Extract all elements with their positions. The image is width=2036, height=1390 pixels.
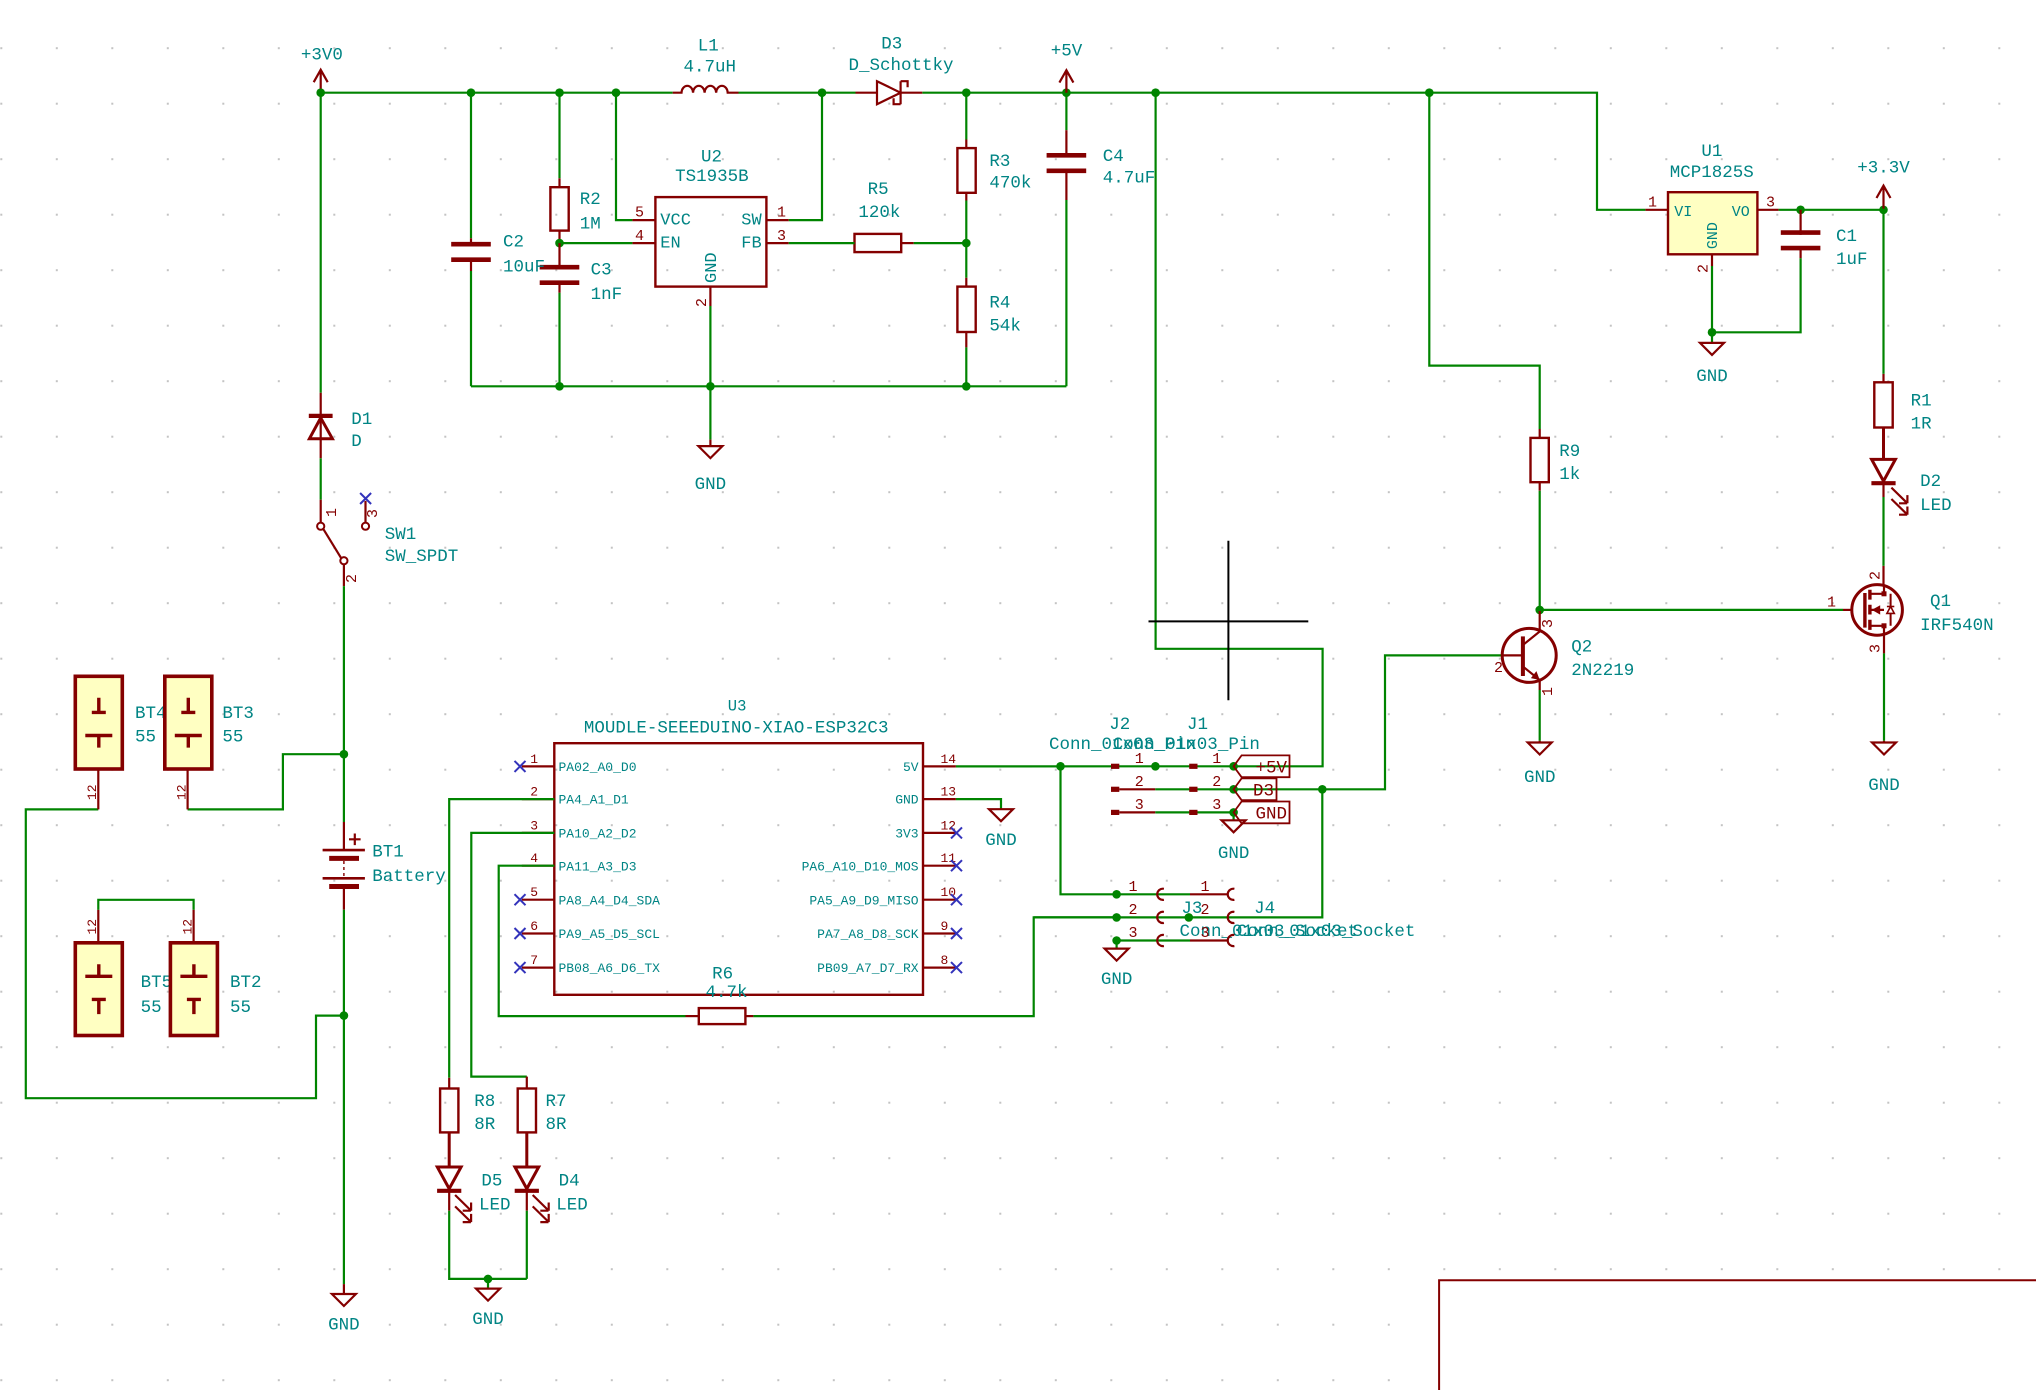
svg-text:12: 12 <box>180 919 195 935</box>
svg-text:5: 5 <box>635 205 644 222</box>
svg-text:R3: R3 <box>989 152 1010 172</box>
wire D1 to SW1 <box>320 458 322 499</box>
pin 4 EN of U2 <box>632 242 655 244</box>
svg-text:FB: FB <box>741 235 761 254</box>
junction top rail at R2 <box>555 88 564 97</box>
junction top rail at +5V / C4 <box>1062 88 1071 97</box>
wire U1 GND pin down <box>1711 266 1713 332</box>
wire D4 to LED gnd rail <box>526 1211 528 1279</box>
wire U3 GND pin to ground <box>956 799 1001 809</box>
junction C1 tap <box>1796 206 1805 215</box>
junction Q2 collector / Q1 gate <box>1535 606 1544 615</box>
wire down to R2 <box>558 93 560 179</box>
svg-text:C4: C4 <box>1103 147 1124 167</box>
svg-text:GND: GND <box>985 831 1017 851</box>
wire FB pin to R5 <box>789 242 855 244</box>
connector J3 Conn_01x03_Socket <box>1157 889 1164 900</box>
global label GND <box>1234 802 1290 824</box>
resistor R7 <box>518 1089 536 1133</box>
junction gnd rail at C3 <box>555 382 564 391</box>
svg-text:2: 2 <box>1135 774 1144 791</box>
junction FB node <box>962 239 971 248</box>
connector J2 Conn_01x03_Pin <box>1111 764 1119 769</box>
wire gnd stub J1 <box>1232 812 1234 820</box>
resistor R8 <box>440 1089 458 1133</box>
svg-text:J4: J4 <box>1254 899 1275 919</box>
pin 11 PA6_A10_D10_MOS of U3 <box>923 865 956 867</box>
svg-text:GND: GND <box>328 1316 360 1336</box>
svg-text:2: 2 <box>1200 902 1209 919</box>
svg-text:12: 12 <box>174 784 189 800</box>
svg-text:5V: 5V <box>903 760 919 775</box>
resistor R3 <box>957 148 975 193</box>
svg-text:PA11_A3_D3: PA11_A3_D3 <box>559 859 637 874</box>
pin of BT5 <box>97 910 99 943</box>
svg-text:PA9_A5_D5_SCL: PA9_A5_D5_SCL <box>559 927 660 942</box>
svg-text:4: 4 <box>530 851 538 866</box>
pin 3 VO of U1 <box>1757 209 1778 211</box>
svg-text:+3V0: +3V0 <box>301 45 343 65</box>
wire U3 pin2 to R8 <box>449 799 554 1078</box>
ground GND Q1 <box>1872 743 1896 755</box>
svg-text:BT3: BT3 <box>222 704 254 724</box>
wire +5V net from top rail to J1 pin1 <box>1156 93 1323 767</box>
wire 5V branch down to J3/J4 row1 <box>1061 766 1191 894</box>
wire J3 row2 (overlap) <box>1034 916 1117 918</box>
ground GND battery <box>332 1294 356 1306</box>
svg-text:1uF: 1uF <box>1836 250 1868 270</box>
svg-text:SW_SPDT: SW_SPDT <box>385 547 459 567</box>
svg-text:VO: VO <box>1732 204 1750 221</box>
svg-text:U3: U3 <box>728 698 747 716</box>
wire R5 to FB node <box>914 242 967 244</box>
capacitor C3 <box>540 267 580 283</box>
transistor Q1 IRF540N <box>1852 585 1903 636</box>
wire C1 to U1 gnd <box>1712 258 1801 332</box>
svg-text:R5: R5 <box>868 180 889 200</box>
svg-text:GND: GND <box>1101 970 1133 990</box>
resistor R2 <box>550 187 568 230</box>
svg-text:C1: C1 <box>1836 227 1857 247</box>
battery holder BT2 <box>170 943 217 1036</box>
diode D1 <box>320 393 322 459</box>
pin 12 3V3 of U3 <box>923 832 956 834</box>
svg-text:4.7uH: 4.7uH <box>684 57 737 77</box>
pin 8 PB09_A7_D7_RX of U3 <box>923 966 956 968</box>
svg-text:PA6_A10_D10_MOS: PA6_A10_D10_MOS <box>802 859 919 874</box>
svg-text:J1: J1 <box>1187 715 1208 735</box>
svg-text:VI: VI <box>1674 204 1692 221</box>
svg-text:55: 55 <box>230 998 251 1018</box>
svg-text:J2: J2 <box>1109 715 1130 735</box>
svg-text:55: 55 <box>141 998 162 1018</box>
svg-text:D3: D3 <box>881 34 902 54</box>
pin 9 PA7_A8_D8_SCK of U3 <box>923 932 956 934</box>
svg-text:GND: GND <box>472 1310 504 1330</box>
wire U2 GND pin to rail <box>709 306 711 386</box>
junction top rail at SW node <box>818 88 827 97</box>
pin 2 PA4_A1_D1 of U3 <box>522 798 555 800</box>
svg-text:6: 6 <box>530 919 538 934</box>
LED D5 <box>437 1132 461 1188</box>
svg-text:C3: C3 <box>591 261 612 281</box>
junction top rail at +5V feed to J1 <box>1151 88 1160 97</box>
svg-text:GND: GND <box>895 793 919 808</box>
wire J2 pin3 to J1 pin3 <box>1155 811 1233 813</box>
wire gnd stub U1 <box>1711 332 1713 343</box>
svg-text:IRF540N: IRF540N <box>1920 616 1994 636</box>
svg-text:12: 12 <box>85 784 100 800</box>
svg-text:PA10_A2_D2: PA10_A2_D2 <box>559 827 637 842</box>
pin 1 PA02_A0_D0 of U3 <box>522 765 555 767</box>
svg-text:2: 2 <box>1696 264 1713 273</box>
svg-text:PB08_A6_D6_TX: PB08_A6_D6_TX <box>559 961 661 976</box>
junction J3 pin2 <box>1112 913 1121 922</box>
battery holder BT5 <box>75 943 122 1036</box>
junction top rail at R3 <box>962 88 971 97</box>
svg-text:GND: GND <box>1705 222 1722 249</box>
junction top rail at +3V0 <box>316 88 325 97</box>
svg-text:R1: R1 <box>1911 392 1932 412</box>
lead C3 top <box>558 243 560 267</box>
inductor L1 <box>673 86 739 93</box>
svg-text:7: 7 <box>530 953 538 968</box>
pin 10 PA5_A9_D9_MISO of U3 <box>923 899 956 901</box>
svg-text:U2: U2 <box>701 148 722 168</box>
pin 3 PA10_A2_D2 of U3 <box>522 832 555 834</box>
svg-text:MCP1825S: MCP1825S <box>1670 163 1754 183</box>
wire +3V0 down to D1 <box>320 93 322 393</box>
power +3.3V symbol <box>1877 186 1891 209</box>
svg-text:GND: GND <box>1868 776 1900 796</box>
svg-text:Battery: Battery <box>372 867 446 887</box>
wire down to R3 <box>965 93 967 140</box>
junction J1 pin2 <box>1229 785 1238 794</box>
wire +3V0 rail left segment <box>321 92 673 94</box>
svg-text:1: 1 <box>1540 687 1557 696</box>
svg-text:9: 9 <box>941 919 949 934</box>
svg-text:GND: GND <box>695 475 727 495</box>
connector J1 Conn_01x03_Pin <box>1189 764 1197 769</box>
junction BT3 tap <box>340 750 349 759</box>
IC U2 TS1935B body <box>655 197 766 287</box>
wire BT1 to GND <box>343 910 345 1284</box>
svg-text:1: 1 <box>530 752 538 767</box>
svg-text:3: 3 <box>1212 797 1221 814</box>
junction U1 gnd node <box>1708 328 1717 337</box>
capacitor C4 <box>1047 155 1087 171</box>
wire SW node down to U2 SW pin <box>789 93 822 220</box>
svg-text:3: 3 <box>1200 925 1209 942</box>
svg-text:2: 2 <box>530 785 538 800</box>
pin 1 SW of U2 <box>766 219 788 221</box>
svg-text:Q2: Q2 <box>1571 637 1592 657</box>
svg-text:BT1: BT1 <box>372 842 404 862</box>
resistor R4 <box>957 287 975 332</box>
power +5V symbol <box>1059 70 1073 93</box>
svg-text:GND: GND <box>1218 844 1250 864</box>
ground GND below U2 <box>698 446 722 458</box>
battery holder BT3 <box>165 676 212 769</box>
svg-text:3: 3 <box>777 228 786 245</box>
svg-text:SW: SW <box>741 212 762 231</box>
svg-text:D3: D3 <box>1253 782 1274 802</box>
resistor R9 <box>1531 438 1549 482</box>
wire U2 circuit ground rail <box>471 385 1066 387</box>
svg-text:1: 1 <box>1648 194 1657 211</box>
wire Q1 source to GND <box>1883 653 1885 740</box>
svg-text:2: 2 <box>1212 774 1221 791</box>
svg-text:54k: 54k <box>989 317 1021 337</box>
IC U3 module body <box>554 743 923 995</box>
svg-text:PA4_A1_D1: PA4_A1_D1 <box>559 793 629 808</box>
svg-text:GND: GND <box>1255 805 1287 825</box>
no-connect U3 pin 7 <box>515 962 526 973</box>
svg-text:3: 3 <box>530 818 538 833</box>
battery holder BT4 <box>75 676 122 769</box>
svg-text:3: 3 <box>1540 619 1557 628</box>
wire U3 pin3 to R7 <box>471 833 554 1077</box>
wire D3 net J2 pin2 to Q2 base <box>1155 655 1502 789</box>
svg-text:R6: R6 <box>712 964 733 984</box>
svg-text:3: 3 <box>365 509 382 518</box>
LED D2 <box>1872 428 1896 482</box>
svg-text:55: 55 <box>222 727 243 747</box>
svg-text:1: 1 <box>777 205 786 222</box>
ground GND Q2 <box>1528 743 1552 755</box>
wire U3 pin4 to R6 <box>499 866 686 1016</box>
wire R6 to J3 row2 up to D3 row <box>753 789 1322 1016</box>
wire Q2 emitter to GND <box>1539 690 1541 741</box>
wire R3 to FB node <box>965 201 967 244</box>
svg-text:+5V: +5V <box>1051 41 1083 61</box>
pin 4 PA11_A3_D3 of U3 <box>522 865 555 867</box>
svg-text:D2: D2 <box>1920 472 1941 492</box>
global label +5V <box>1234 755 1290 777</box>
pin 2 drain of Q1 <box>1882 566 1884 585</box>
svg-text:GND: GND <box>703 252 722 283</box>
junction J2 pin1 <box>1151 762 1160 771</box>
ground GND J3 <box>1105 949 1129 961</box>
pin 2 GND of U1 <box>1711 254 1713 266</box>
pin 2 base of Q2 <box>1502 654 1523 656</box>
svg-text:12: 12 <box>85 919 100 935</box>
svg-text:R9: R9 <box>1559 442 1580 462</box>
resistor R6 horizontal <box>699 1008 746 1024</box>
wire R9 to Q2 collector node <box>1539 491 1541 610</box>
svg-text:R7: R7 <box>546 1092 567 1112</box>
svg-text:C2: C2 <box>503 233 524 253</box>
svg-text:PB09_A7_D7_RX: PB09_A7_D7_RX <box>817 961 919 976</box>
wire D2 to Q1 drain <box>1882 497 1884 566</box>
svg-text:470k: 470k <box>989 174 1031 194</box>
pin 6 PA9_A5_D5_SCL of U3 <box>522 932 555 934</box>
no-connect U3 pin 12 <box>951 827 962 838</box>
svg-text:3: 3 <box>1135 797 1144 814</box>
junction EN node <box>555 239 564 248</box>
svg-text:D1: D1 <box>351 410 372 430</box>
no-connect U3 pin 5 <box>515 894 526 905</box>
pin 2 GND of U2 <box>709 287 711 306</box>
wire rail down to GND symbol <box>709 386 711 439</box>
lead C3 bottom <box>558 283 560 293</box>
pin of BT3 <box>187 769 189 809</box>
ground GND U3 <box>989 809 1013 821</box>
title block frame corner <box>1440 1281 2036 1390</box>
wire down to C2 <box>470 93 472 239</box>
graphic line cross vertical <box>1227 541 1229 700</box>
wire R4 to gnd rail <box>965 347 967 386</box>
svg-text:120k: 120k <box>858 203 900 223</box>
junction J3 pin1 <box>1112 890 1121 899</box>
wire J3 pin3 to J4 pin3 <box>1117 939 1190 941</box>
svg-text:LED: LED <box>556 1195 588 1215</box>
wire EN node to pin <box>560 242 633 244</box>
svg-text:GND: GND <box>1696 367 1728 387</box>
svg-text:3: 3 <box>1128 925 1137 942</box>
no-connect U3 pin 1 <box>515 761 526 772</box>
transistor Q2 2N2219 <box>1502 628 1556 682</box>
svg-text:U1: U1 <box>1701 142 1722 162</box>
svg-text:VCC: VCC <box>660 212 691 231</box>
svg-text:Conn_01x03_Pin: Conn_01x03_Pin <box>1113 735 1260 755</box>
wire C3 to gnd rail <box>558 293 560 387</box>
svg-text:L1: L1 <box>698 37 719 57</box>
junction battery bottom tap <box>340 1011 349 1020</box>
svg-text:+3.3V: +3.3V <box>1857 159 1910 179</box>
svg-text:55: 55 <box>135 727 156 747</box>
junction 5V branch to J3 <box>1056 762 1065 771</box>
svg-text:D: D <box>351 432 362 452</box>
svg-text:R4: R4 <box>989 294 1010 314</box>
LED D4 <box>515 1132 539 1188</box>
junction gnd rail at R4 <box>962 382 971 391</box>
no-connect U3 pin 9 <box>951 928 962 939</box>
svg-text:D5: D5 <box>481 1172 502 1192</box>
wire to Q1 gate <box>1540 609 1843 611</box>
svg-text:1R: 1R <box>1911 414 1933 434</box>
pin 7 PB08_A6_D6_TX of U3 <box>522 966 555 968</box>
svg-text:2: 2 <box>1494 660 1503 677</box>
svg-text:14: 14 <box>941 752 957 767</box>
wire U3 5V pin to J1 pin1 row <box>956 765 1234 767</box>
no-connect U3 pin 11 <box>951 860 962 871</box>
junction top rail at C2 <box>467 88 476 97</box>
IC U1 MCP1825S body <box>1668 192 1757 254</box>
diode D3 D_Schottky <box>856 92 923 94</box>
svg-text:R2: R2 <box>580 190 601 210</box>
wire C2 to gnd rail <box>470 271 472 386</box>
pin 5 PA8_A4_D4_SDA of U3 <box>522 899 555 901</box>
pin of BT2 <box>193 910 195 943</box>
svg-text:Conn_01x03_Socket: Conn_01x03_Socket <box>1237 922 1416 942</box>
svg-text:2: 2 <box>694 298 711 307</box>
svg-text:3V3: 3V3 <box>895 827 918 842</box>
pin 14 5V of U3 <box>923 765 956 767</box>
wire VO to +3.3V node <box>1779 209 1884 211</box>
svg-text:2: 2 <box>344 574 361 583</box>
svg-text:1: 1 <box>1128 879 1137 896</box>
svg-text:BT4: BT4 <box>135 704 167 724</box>
junction J3 pin3 <box>1112 936 1121 945</box>
wire top rail to R9 <box>1429 93 1539 429</box>
resistor R5 horizontal <box>855 234 902 252</box>
svg-text:LED: LED <box>479 1195 511 1215</box>
wire down to U2 VCC pin <box>616 93 632 220</box>
svg-text:EN: EN <box>660 235 680 254</box>
junction top rail at R9 feed <box>1425 88 1434 97</box>
wire gnd stub J3 <box>1115 941 1117 949</box>
svg-text:10uF: 10uF <box>503 257 545 277</box>
global label D3 <box>1234 778 1277 800</box>
svg-text:4: 4 <box>635 228 644 245</box>
svg-text:D_Schottky: D_Schottky <box>849 56 954 76</box>
wire rail L1 to D3 <box>739 92 856 94</box>
svg-text:Q1: Q1 <box>1930 592 1951 612</box>
svg-text:+5V: +5V <box>1255 759 1287 779</box>
svg-text:3: 3 <box>1766 194 1775 211</box>
svg-text:R8: R8 <box>474 1092 495 1112</box>
svg-text:3: 3 <box>1868 644 1885 653</box>
svg-text:SW1: SW1 <box>385 525 417 545</box>
svg-text:TS1935B: TS1935B <box>675 167 749 187</box>
svg-text:D4: D4 <box>559 1172 580 1192</box>
svg-text:LED: LED <box>1920 496 1952 516</box>
no-connect SW1 pin 3 <box>360 493 371 504</box>
wire +3.3V node to R1 <box>1882 210 1884 374</box>
wire C4 to gnd rail <box>1065 200 1067 386</box>
pin 3 source of Q1 <box>1883 635 1885 653</box>
junction LED gnd <box>484 1275 493 1284</box>
junction gnd rail at U2 GND <box>706 382 715 391</box>
svg-text:8R: 8R <box>474 1115 496 1135</box>
battery BT1 <box>343 822 345 910</box>
svg-text:5: 5 <box>530 885 538 900</box>
capacitor C2 <box>451 244 491 260</box>
wire D5 to LED gnd rail <box>449 1211 527 1279</box>
svg-text:PA8_A4_D4_SDA: PA8_A4_D4_SDA <box>559 893 661 908</box>
ground GND LEDs <box>476 1289 500 1301</box>
graphic line cross horizontal <box>1149 620 1309 622</box>
wire bottom loop to BT4 <box>26 809 344 1098</box>
switch SW1 SW_SPDT <box>320 500 322 523</box>
svg-text:8: 8 <box>941 953 949 968</box>
svg-text:1k: 1k <box>1559 465 1580 485</box>
svg-text:13: 13 <box>941 785 957 800</box>
ground GND J1 <box>1222 820 1246 832</box>
power +3V0 symbol <box>314 70 328 93</box>
no-connect U3 pin 6 <box>515 928 526 939</box>
junction J1 pin3 / GND label <box>1229 808 1238 817</box>
junction D3 net to R6 branch <box>1318 785 1327 794</box>
wire BT5 to BT2 <box>98 900 193 910</box>
svg-text:BT2: BT2 <box>230 973 262 993</box>
svg-text:1: 1 <box>1200 879 1209 896</box>
svg-text:2N2219: 2N2219 <box>1571 661 1634 681</box>
svg-text:PA5_A9_D9_MISO: PA5_A9_D9_MISO <box>809 893 918 908</box>
svg-text:1M: 1M <box>580 215 601 235</box>
junction +3.3V node <box>1879 206 1888 215</box>
connector J4 Conn_01x03_Socket <box>1190 893 1228 895</box>
pin 3 FB of U2 <box>766 242 788 244</box>
svg-text:2: 2 <box>1128 902 1137 919</box>
wire down to C4 <box>1065 93 1067 131</box>
svg-text:4.7uF: 4.7uF <box>1103 169 1156 189</box>
svg-text:8R: 8R <box>546 1115 568 1135</box>
svg-text:4.7k: 4.7k <box>706 983 748 1003</box>
svg-text:BT5: BT5 <box>141 973 173 993</box>
pin 13 GND of U3 <box>923 798 956 800</box>
